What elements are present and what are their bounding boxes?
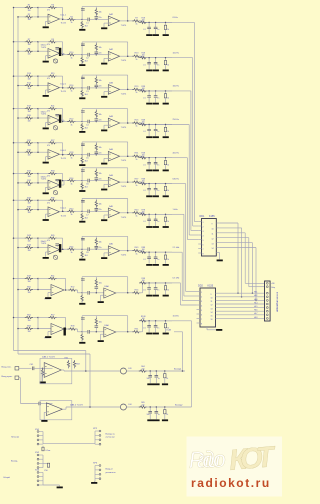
transistor VT2 [53,59,57,63]
wire stage2 output [120,212,134,214]
resistor R48 from top wire [95,236,97,239]
resistor R14 input B [25,84,33,86]
capacitor C50a [164,407,166,410]
svg-text:100: 100 [142,211,145,213]
wire stage2 feedback down [127,42,129,56]
resistor R15 feedback [38,75,50,77]
svg-text:13: 13 [211,308,213,310]
resistor R11 to ground [81,56,83,64]
wire row 3 output to bus [172,90,191,92]
svg-text:TL074: TL074 [121,186,126,188]
wire stage2 feedback down [127,142,129,156]
svg-text:3k3: 3k3 [85,61,88,63]
svg-text:100: 100 [142,122,145,124]
svg-text:TL074: TL074 [121,25,126,27]
svg-text:10n: 10n [147,414,150,416]
svg-text:13: 13 [212,243,214,245]
svg-text:10k: 10k [27,185,30,187]
svg-text:1k: 1k [136,253,138,255]
wire output line row 9 [143,282,173,284]
svg-text:12: 12 [212,238,214,240]
svg-text:1k: 1k [167,259,169,261]
op-amp DA4 stage2 [96,248,108,250]
capacitor C47a [164,371,166,374]
svg-text:3: 3 [201,301,202,303]
svg-text:усилителя: усилителя [106,472,116,474]
svg-text:15: 15 [211,316,213,318]
wire stage2 output [120,155,134,157]
wire stage1 output [60,153,65,155]
resistor R25 input A [25,142,33,144]
capacitor C43 output L circle [120,368,126,374]
svg-text:4: 4 [203,236,204,238]
svg-text:Выход: Выход [11,461,18,463]
capacitor C61 series [82,180,87,182]
svg-text:14: 14 [212,248,214,250]
svg-text:160 Hz: 160 Hz [173,86,179,88]
svg-text:3k3: 3k3 [85,25,88,27]
capacitor C103 RC block [148,321,150,326]
capacitor C31 series [82,87,87,89]
svg-text:TL074: TL074 [61,23,66,25]
wire out stage2 [116,331,134,333]
wire output line row 6 [143,183,173,185]
op-amp DA4.2 stage1 [48,245,60,255]
svg-text:3k3: 3k3 [85,128,88,130]
capacitor C54 RC block [155,158,157,163]
capacitor C25 RC block [165,58,167,61]
IC DD2 [200,288,216,327]
wire IC1 outputs to lower bus [220,222,238,224]
capacitor C81 series [82,248,87,250]
op-amp DA4.1 stage1 [48,207,60,217]
wire top feedback row [82,74,128,76]
capacitor C46 [155,371,157,376]
svg-text:22n: 22n [99,17,102,19]
svg-text:1 kHz: 1 kHz [173,209,178,211]
svg-text:Общий: Общий [3,476,11,479]
wire row 6 output to bus [172,183,186,185]
resistor R10 interstage [67,54,75,56]
op-amp DA2.1 stage1 [48,83,60,93]
svg-text:КОТ: КОТ [228,441,278,477]
wire input R to stage 2 [21,403,39,405]
resistor R2 input B [25,16,33,18]
filter channel row 8 [14,237,26,239]
svg-text:1n: 1n [157,290,159,292]
svg-text:10k: 10k [27,320,30,322]
ground stage1 non-inverting input [46,20,49,22]
op-amp DA6.2 [46,403,62,416]
svg-text:6.3 kHz: 6.3 kHz [173,278,180,280]
svg-text:10k: 10k [27,120,30,122]
op-amp DA2 stage2 [96,121,108,123]
capacitor C40 electrolytic [59,115,61,123]
capacitor C21 series [82,54,87,56]
svg-text:2: 2 [201,297,202,299]
svg-text:8: 8 [201,324,202,326]
wire stage1 output [60,119,65,121]
resistor R50 input B [25,288,33,290]
capacitor C24 RC block [155,58,157,63]
wire stage2 feedback down [127,7,129,21]
svg-text:11: 11 [212,234,214,236]
wire top feedback row [82,6,128,8]
svg-text:10k: 10k [27,281,30,283]
resistor R5 to ground [81,21,83,29]
resistor R8 input B [25,50,33,52]
svg-text:10k: 10k [99,47,102,49]
svg-text:TL074: TL074 [41,114,46,116]
wire stage2 output [120,20,134,22]
svg-text:22n: 22n [99,209,102,211]
svg-text:10k: 10k [27,331,30,333]
ground DA6.2 [44,411,46,413]
ground stage1 non-inverting input [46,89,49,91]
capacitor to top wire [81,42,83,55]
resistor R43 output [132,212,140,214]
svg-text:1k: 1k [71,252,73,254]
svg-text:HL6: HL6 [254,310,257,312]
filter channel row 1 [14,7,26,9]
svg-text:1k: 1k [136,92,138,94]
ground stage1 [48,292,51,294]
svg-text:1n: 1n [158,378,160,380]
svg-text:10: 10 [211,298,213,300]
wire stage1 output [60,249,65,251]
wire top feedback row [82,167,128,169]
wire row 4 output to bus [172,124,189,126]
capacitor C44 output R circle [120,404,126,410]
svg-text:TL074: TL074 [41,243,46,245]
svg-text:DA3.1: DA3.1 [61,149,67,152]
ground IC DD1 [216,252,219,254]
svg-text:TL074: TL074 [121,93,126,95]
capacitor C20 electrolytic [59,48,61,56]
capacitor C75 RC block [165,214,167,217]
svg-text:47k: 47k [47,145,50,147]
wire output line row 8 [143,251,173,253]
svg-text:DA2.1: DA2.1 [61,82,67,85]
svg-text:1k: 1k [71,158,73,160]
resistor R59 to ground [81,333,83,341]
capacitor C91 series [82,292,87,294]
capacitor C13 RC block [148,22,150,27]
wire stage1 output [60,184,65,186]
svg-text:HL5: HL5 [254,306,257,308]
resistor R32 input B [25,182,33,184]
svg-text:0.1: 0.1 [143,327,146,329]
svg-text:1n: 1n [157,64,159,66]
svg-text:TL074: TL074 [61,91,66,93]
wire row 10 output to bus [172,320,192,322]
wire junction verticals [33,237,38,239]
wire output line 2 [126,406,140,408]
wire: left input bus R [17,17,19,354]
wire junction verticals [33,7,38,9]
resistor R43 input A [25,237,33,239]
svg-text:Выход2: Выход2 [175,404,183,406]
svg-text:9: 9 [211,294,212,296]
resistor R64 series [139,370,147,372]
svg-text:22n: 22n [99,153,102,155]
capacitor C15 RC block [165,22,167,25]
capacitor to top wire [81,75,83,88]
wire stage2 output [120,181,134,183]
ground stage2 non-inverting input [104,252,108,254]
svg-text:8: 8 [203,254,204,256]
svg-text:radiokot.ru: radiokot.ru [191,476,271,490]
svg-text:10k: 10k [27,203,30,205]
svg-text:10k: 10k [27,176,30,178]
resistor R12 from top wire [95,42,97,45]
op-amp DA5 stage1 [51,285,64,296]
ground stage1 non-inverting input [46,213,49,215]
wire top feedback row [82,235,128,237]
svg-text:1n: 1n [157,327,159,329]
capacitor to top wire [81,168,83,181]
svg-text:3k3: 3k3 [85,255,88,257]
svg-text:0.1: 0.1 [143,259,146,261]
wire IC2 outputs to connector XP1 [216,292,265,294]
capacitor C101 series [82,331,87,333]
svg-text:1k: 1k [167,164,169,166]
filter channel row 6 [14,173,26,175]
resistor R62 [68,361,70,362]
wire row 9 output to bus [172,282,180,284]
resistor R3 feedback [38,7,50,9]
svg-text:1k: 1k [71,22,73,24]
svg-text:1k: 1k [167,290,169,292]
resistor R55 input A [25,316,33,318]
resistor R35 to ground [81,182,83,190]
resistor R7 input A [25,41,33,43]
svg-text:1k: 1k [136,216,138,218]
svg-text:2: 2 [203,227,204,229]
capacitor C49a [155,407,157,412]
svg-text:10k: 10k [27,111,30,113]
svg-text:K155: K155 [208,285,214,288]
svg-text:1n: 1n [158,414,160,416]
svg-text:OutB: OutB [166,329,172,332]
resistor R51 feedback [38,278,50,280]
svg-text:K155: K155 [209,215,215,218]
svg-text:DA6.2 TL072: DA6.2 TL072 [70,404,84,407]
svg-text:11: 11 [211,301,213,303]
ground stage1 [48,331,51,333]
capacitor to top wire [81,236,83,249]
svg-text:22n: 22n [99,86,102,88]
svg-text:100: 100 [142,155,145,157]
resistor R63 [74,361,76,362]
capacitor C94 RC block [155,283,157,288]
wire XS2 stub [43,462,47,464]
wire output line row 5 [143,157,173,159]
ground stage1 non-inverting input [46,122,49,124]
svg-text:1k: 1k [136,159,138,161]
wire top feedback row [82,41,128,43]
svg-text:100 Hz: 100 Hz [173,52,179,54]
svg-text:1k: 1k [71,91,73,93]
capacitor C45 RC block [165,125,167,128]
filter channel row 9 [14,278,26,280]
capacitor node A to top [81,316,83,332]
svg-text:12: 12 [211,305,213,307]
capacitor C55 RC block [165,158,167,161]
capacitor C74 RC block [155,214,157,219]
resistor R19 output [132,88,140,90]
svg-text:100: 100 [142,280,145,282]
wire stage1 output [60,87,65,89]
svg-text:22n: 22n [99,53,102,55]
wire stage2 output [120,55,134,57]
svg-text:47k: 47k [47,78,50,80]
filter channel row 3 [14,75,26,77]
svg-text:HL4: HL4 [254,302,257,304]
svg-text:5: 5 [203,240,204,242]
resistor R37 output [132,181,140,183]
capacitor C32 [95,83,97,85]
svg-text:10k: 10k [99,173,102,175]
op-amp DA1 stage2 [96,18,108,20]
filter channel row 7 [14,199,26,201]
svg-text:1k: 1k [136,24,138,26]
ground stage1 non-inverting input [46,251,49,253]
capacitor C41 series L [33,367,34,371]
IC DD1 [202,219,217,257]
svg-text:0.1: 0.1 [143,29,146,31]
resistor R24 from top wire [95,109,97,112]
resistor R21 feedback [38,108,50,110]
resistor R19 input A [25,107,33,109]
svg-text:14: 14 [211,312,213,314]
svg-text:1k: 1k [71,183,73,185]
wire stage1 out [65,279,67,291]
svg-text:C43: C43 [128,368,131,370]
svg-text:0.1: 0.1 [143,290,146,292]
svg-text:0.1: 0.1 [143,221,146,223]
wire row 2 output to bus [172,57,193,59]
capacitor C42 series R [39,402,40,406]
capacitor C44 RC block [155,125,157,130]
wire junction verticals [33,199,38,201]
capacitor C71 series [82,210,87,212]
capacitor C34 RC block [155,91,157,96]
resistor R48 series RC block [139,123,147,125]
capacitor to top wire [81,109,83,122]
op-amp DA3 stage2 [96,154,108,156]
capacitor C51 series [82,154,87,156]
resistor R27 feedback [38,142,50,144]
svg-text:5: 5 [201,310,202,312]
svg-text:1k: 1k [166,414,168,416]
wire output line 1 [126,370,140,372]
svg-text:10k: 10k [27,292,30,294]
svg-text:47k: 47k [47,202,50,204]
wire stage2 feedback down [127,109,129,123]
ground stage2 non-inverting input [104,91,108,93]
wire stage2 output [120,250,134,252]
capacitor to top wire [81,199,83,212]
wire fb down [127,316,129,332]
resistor R65 series [139,406,147,408]
svg-text:TL074: TL074 [121,217,126,219]
capacitor C60 electrolytic [59,180,61,188]
svg-text:C44: C44 [128,404,131,406]
svg-text:4: 4 [201,306,202,308]
capacitor C41 series [82,121,87,123]
capacitor C35 RC block [165,91,167,94]
svg-text:100: 100 [142,318,145,320]
svg-text:1k: 1k [136,59,138,61]
resistor R7 output [132,20,140,22]
svg-text:TL074: TL074 [121,127,126,129]
svg-text:10k: 10k [27,250,30,252]
ground XP3 [94,479,96,482]
svg-text:7: 7 [203,249,204,251]
resistor R49 input A [25,277,33,279]
svg-text:1k: 1k [71,58,73,60]
resistor R44 input B [25,246,33,248]
resistor R39 feedback [38,199,50,201]
svg-text:1k: 1k [167,98,169,100]
resistor R45 feedback [38,237,50,239]
svg-text:1n: 1n [157,221,159,223]
op-amp DA6.2 box [40,401,72,420]
svg-text:10k: 10k [27,212,30,214]
svg-text:HL2: HL2 [254,295,257,297]
wire junction verticals [33,108,38,110]
resistor R25 output [132,122,140,124]
ground stage2 non-inverting input [104,57,108,59]
capacitor C85 RC block [165,252,167,255]
resistor R13 output [132,55,140,57]
filter channel row 5 [14,142,26,144]
capacitor C43 RC block [148,125,150,130]
svg-text:TL074: TL074 [121,255,126,257]
svg-text:Вход лев.: Вход лев. [2,367,12,369]
svg-text:HL1: HL1 [254,292,257,294]
capacitor to top wire [81,142,83,155]
op-amp DA4 stage2 [96,210,108,212]
ground XS3 [43,484,60,486]
svg-text:10n: 10n [147,378,150,380]
transistor VT4 [53,126,57,130]
svg-text:100: 100 [142,88,145,90]
resistor R58 series RC block [139,157,147,159]
svg-text:1k: 1k [167,29,169,31]
capacitor C62 [95,176,97,178]
svg-text:1k: 1k [136,126,138,128]
wire junction [33,317,38,319]
svg-text:Вход прав.: Вход прав. [2,376,13,378]
capacitor C11 series [82,18,87,20]
resistor R78 series RC block [139,213,147,215]
wire out stage2 [116,292,134,294]
capacitor to top wire [81,7,83,20]
svg-text:10k: 10k [99,80,102,82]
ground stage2 non-inverting input [104,22,108,24]
ground stage1 non-inverting input [46,186,49,188]
connector XP1 [265,281,271,321]
svg-text:1k: 1k [167,190,169,192]
svg-text:3k3: 3k3 [85,94,88,96]
wire DA6.2 output [62,408,66,410]
transistor VT6 [53,191,57,195]
resistor R55 output [132,292,140,294]
svg-text:400 Hz: 400 Hz [173,152,179,154]
op-amp DA3.2 stage1 [48,180,60,190]
